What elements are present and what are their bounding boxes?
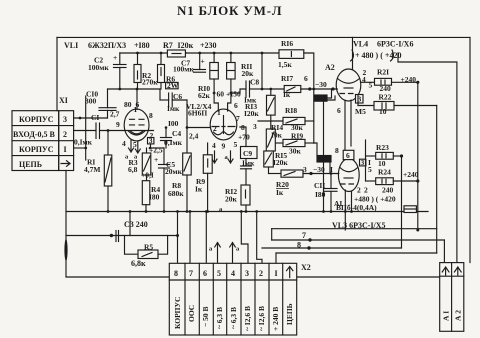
- resistor R11: [230, 53, 232, 63]
- svg-text:+240: +240: [403, 170, 419, 179]
- capacitor C5: [163, 148, 165, 165]
- capacitor C10: [107, 89, 109, 108]
- svg-text:2: 2: [259, 269, 263, 278]
- svg-text:+: +: [154, 155, 158, 164]
- capacitor C4: [165, 128, 167, 138]
- svg-text:~ I2,6 В: ~ I2,6 В: [257, 306, 266, 331]
- A connector: [440, 263, 464, 332]
- svg-text:9: 9: [222, 142, 226, 151]
- svg-text:Iк: Iк: [283, 90, 291, 99]
- svg-text:4: 4: [122, 139, 126, 148]
- svg-text:62к: 62к: [198, 91, 211, 100]
- wire ground to A-box: [297, 276, 440, 278]
- svg-text:8: 8: [335, 146, 339, 155]
- svg-text:VL4: VL4: [353, 40, 368, 49]
- svg-text:а: а: [209, 246, 213, 253]
- svg-text:1,5к: 1,5к: [278, 60, 292, 69]
- svg-text:~ 6,3 В: ~ 6,3 В: [229, 307, 238, 329]
- resistor R23: [365, 140, 367, 181]
- svg-text:−30: −30: [315, 80, 327, 89]
- svg-text:+I50: +I50: [226, 90, 241, 99]
- svg-text:6Н6П: 6Н6П: [188, 109, 207, 118]
- svg-text:+I80: +I80: [134, 41, 150, 50]
- wire 7: [272, 239, 445, 241]
- capacitor C11: [330, 174, 332, 189]
- damper D23 VL4 (dark box): [314, 95, 327, 101]
- svg-text:Iк: Iк: [276, 188, 284, 197]
- resistor R20: [269, 173, 282, 175]
- wire bus to C3 line: [129, 212, 131, 236]
- resistor R2: [137, 53, 139, 65]
- VL1 cathode network: [151, 144, 165, 148]
- resistor R6: [160, 53, 162, 65]
- svg-text:~ I2,6 В: ~ I2,6 В: [243, 306, 252, 331]
- tube VL1: [124, 109, 149, 141]
- svg-text:5: 5: [234, 140, 238, 149]
- svg-text:60: 60: [217, 90, 225, 99]
- resistor R14: [270, 115, 272, 129]
- svg-text:С4: С4: [172, 129, 181, 138]
- svg-text:100мк: 100мк: [173, 65, 194, 74]
- svg-text:2: 2: [213, 124, 217, 133]
- svg-text:RI7: RI7: [281, 74, 293, 83]
- svg-text:КОРПУС: КОРПУС: [173, 297, 182, 329]
- svg-text:− 50 В: − 50 В: [201, 306, 210, 327]
- svg-text:а: а: [225, 154, 229, 161]
- svg-text:4: 4: [212, 141, 216, 150]
- ground wire left vertical: [66, 171, 169, 278]
- svg-text:+70: +70: [238, 133, 250, 142]
- svg-text:С3 240: С3 240: [124, 220, 148, 229]
- ground bus: [66, 211, 428, 213]
- svg-text:1: 1: [217, 108, 221, 117]
- blob artifact: [64, 239, 67, 261]
- svg-text:5: 5: [368, 165, 372, 174]
- svg-text:7: 7: [236, 114, 240, 123]
- svg-text:+240: +240: [401, 75, 417, 84]
- resistor R3: [142, 153, 151, 175]
- R23 net vertical: [401, 156, 403, 248]
- svg-text:+ 480 ) ( +420: + 480 ) ( +420: [355, 51, 401, 60]
- svg-text:0,Iмк: 0,Iмк: [74, 138, 93, 147]
- wire 8: [262, 247, 402, 249]
- VL1 filament arrows: [129, 140, 134, 152]
- svg-text:I20к: I20к: [178, 41, 194, 50]
- svg-text:Х2: Х2: [301, 263, 311, 272]
- svg-text:а: а: [236, 246, 240, 253]
- anode line VL1: [108, 88, 161, 90]
- svg-text:RI6: RI6: [281, 39, 293, 48]
- resistor R17: [284, 86, 301, 93]
- svg-text:5: 5: [217, 269, 221, 278]
- svg-text:6: 6: [304, 74, 308, 83]
- svg-text:Iк: Iк: [195, 185, 203, 194]
- svg-text:2: 2: [364, 186, 368, 195]
- X2 connector: [169, 263, 296, 335]
- svg-text:R7: R7: [163, 41, 173, 50]
- resistor R15: [264, 151, 274, 167]
- svg-text:4: 4: [231, 269, 235, 278]
- svg-text:9: 9: [116, 120, 120, 129]
- svg-text:Iмк: Iмк: [167, 104, 180, 113]
- svg-text:2: 2: [63, 130, 67, 139]
- resistor R9: [207, 143, 209, 155]
- top row labels: [64, 40, 413, 61]
- svg-text:270к: 270к: [142, 78, 158, 87]
- capacitor C7: [199, 53, 201, 70]
- connector X1: [12, 111, 74, 171]
- svg-text:VL3 6Р3С-I/Х5: VL3 6Р3С-I/Х5: [332, 221, 386, 230]
- svg-text:RI9: RI9: [291, 132, 303, 141]
- svg-text:~ 6,3 В: ~ 6,3 В: [215, 307, 224, 329]
- C9 label box: [241, 147, 258, 159]
- svg-text:1: 1: [134, 105, 138, 114]
- svg-text:240: 240: [382, 186, 394, 195]
- svg-text:6: 6: [346, 151, 350, 160]
- svg-text:С9: С9: [243, 149, 252, 158]
- resistor R8: [183, 153, 192, 175]
- svg-text:VLI: VLI: [64, 41, 78, 50]
- svg-text:6: 6: [337, 106, 341, 115]
- svg-text:4,7М: 4,7М: [84, 165, 100, 174]
- resistor R19: [276, 142, 283, 144]
- svg-text:R2I: R2I: [377, 68, 389, 77]
- svg-text:+0,I: +0,I: [141, 171, 154, 180]
- svg-text:100мк: 100мк: [88, 63, 109, 72]
- filament arrows X2: [215, 242, 221, 263]
- X1 row wires: [74, 117, 108, 119]
- resistor R18: [258, 120, 283, 122]
- svg-text:3: 3: [303, 165, 307, 174]
- damper D23 VL3 (dark box): [317, 156, 331, 163]
- svg-text:300: 300: [85, 97, 97, 106]
- fuse: [404, 206, 416, 213]
- svg-text:RI8: RI8: [285, 106, 297, 115]
- svg-text:КОРПУС: КОРПУС: [19, 145, 54, 154]
- svg-text:30к: 30к: [289, 147, 302, 156]
- svg-text:+: +: [201, 57, 205, 66]
- svg-text:КОРПУС: КОРПУС: [19, 115, 54, 124]
- svg-text:R22: R22: [379, 93, 392, 102]
- svg-text:0,Iмк: 0,Iмк: [164, 138, 183, 147]
- node dots on rail: [136, 52, 232, 55]
- svg-text:6Ж32П/Х3: 6Ж32П/Х3: [88, 41, 126, 50]
- resistor R4: [142, 181, 150, 205]
- svg-text:8: 8: [149, 111, 153, 120]
- svg-text:С8: С8: [250, 78, 259, 87]
- staircase wires bottom right: [272, 228, 437, 230]
- capacitor C3: [115, 231, 117, 242]
- svg-text:ХI: ХI: [59, 96, 68, 105]
- svg-text:С6: С6: [173, 92, 182, 101]
- resistor R13: [270, 89, 272, 95]
- grid wire VL2 / R8: [186, 100, 188, 153]
- border right: [469, 37, 471, 262]
- bus verticals to X2: [177, 212, 179, 264]
- rail +230: [120, 52, 279, 54]
- VL2 filament arrows: [212, 151, 217, 163]
- svg-text:6Р3С-I/Х6: 6Р3С-I/Х6: [377, 40, 413, 49]
- svg-text:ВПб-4(0,4А): ВПб-4(0,4А): [336, 203, 377, 212]
- svg-text:ЦЕПЬ: ЦЕПЬ: [19, 160, 42, 169]
- svg-text:10: 10: [379, 107, 387, 116]
- svg-text:7: 7: [189, 269, 193, 278]
- svg-text:I: I: [275, 269, 278, 278]
- svg-text:8: 8: [297, 241, 301, 250]
- tube VL3: [338, 159, 359, 192]
- resistor R24: [366, 180, 376, 182]
- svg-text:6,8: 6,8: [128, 165, 138, 174]
- svg-text:+: +: [113, 53, 117, 62]
- svg-text:+ 240 В: + 240 В: [271, 307, 280, 331]
- svg-text:2: 2: [357, 186, 361, 195]
- svg-text:2W: 2W: [167, 81, 179, 90]
- svg-text:ЦЕПЬ: ЦЕПЬ: [285, 303, 294, 325]
- capacitor C8: [231, 89, 246, 93]
- svg-text:6: 6: [203, 269, 207, 278]
- +420 wire: [398, 53, 457, 263]
- resistor R22: [357, 95, 359, 106]
- svg-text:А 2: А 2: [454, 310, 463, 321]
- resistor R12: [241, 185, 250, 205]
- svg-text:ВХОД-0,5 В: ВХОД-0,5 В: [13, 130, 56, 139]
- svg-text:680к: 680к: [168, 189, 184, 198]
- svg-text:8: 8: [174, 269, 178, 278]
- svg-text:3: 3: [245, 269, 249, 278]
- capacitor C2: [119, 53, 121, 65]
- svg-text:3: 3: [361, 158, 365, 167]
- svg-text:6,8к: 6,8к: [131, 259, 146, 268]
- border top: [57, 36, 470, 38]
- col3 feed: [241, 212, 248, 264]
- resistor R7: [167, 50, 185, 57]
- tube VL4: [336, 69, 361, 101]
- svg-text:ООС: ООС: [187, 305, 196, 322]
- svg-text:6: 6: [234, 101, 238, 110]
- pin 3 box: [148, 138, 154, 144]
- resistor R1: [107, 131, 109, 156]
- wire +240 to X2: [276, 252, 437, 254]
- svg-text:М5: М5: [355, 107, 366, 116]
- border left: [56, 37, 58, 110]
- svg-text:3: 3: [253, 122, 257, 131]
- svg-text:R5: R5: [144, 243, 153, 252]
- VL3 bottom wires: [344, 190, 346, 230]
- svg-text:N1 БЛОК УМ-Л: N1 БЛОК УМ-Л: [177, 3, 282, 18]
- svg-text:I20к: I20к: [273, 158, 288, 167]
- svg-text:R24: R24: [378, 168, 391, 177]
- capacitor C9: [240, 127, 246, 147]
- svg-text:I: I: [64, 145, 67, 154]
- resistor R5: [125, 236, 139, 255]
- resistor R21: [361, 81, 375, 83]
- C3 feedback line: [66, 235, 178, 237]
- svg-text:20мк: 20мк: [165, 167, 183, 176]
- VL4 bottom / VL3 top wires: [324, 96, 336, 100]
- resistor R10: [213, 53, 215, 63]
- svg-text:А I: А I: [442, 311, 451, 321]
- svg-text:I20к: I20к: [244, 109, 259, 118]
- +240 vertical: [417, 82, 419, 230]
- svg-text:I0к: I0к: [271, 131, 283, 140]
- svg-text:80: 80: [124, 100, 132, 109]
- svg-text:А2: А2: [325, 63, 335, 72]
- svg-text:R23: R23: [376, 143, 389, 152]
- svg-text:I00: I00: [168, 119, 179, 128]
- svg-text:20к: 20к: [225, 195, 238, 204]
- svg-text:СI: СI: [91, 113, 99, 122]
- svg-text:3: 3: [63, 115, 67, 124]
- svg-text:2,7: 2,7: [110, 110, 120, 119]
- capacitor C6: [159, 89, 161, 100]
- tube VL2: [210, 109, 237, 140]
- svg-text:7: 7: [302, 231, 306, 240]
- wire jump marks on +480 line: [351, 50, 354, 61]
- R22 net vertical: [436, 106, 438, 254]
- svg-text:I80: I80: [149, 193, 160, 202]
- svg-text:2,4: 2,4: [189, 132, 199, 141]
- svg-text:+230: +230: [200, 41, 217, 50]
- VL4 anode wire: [352, 37, 354, 69]
- R16 in series: [261, 53, 263, 89]
- capacitor C1: [74, 130, 96, 132]
